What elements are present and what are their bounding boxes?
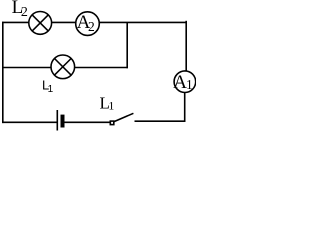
- wire: right vertical upper segment (top-right corner to ammeter A1): [185, 21, 187, 72]
- wire: top rail right segment (A2 to top-right corner): [99, 21, 187, 23]
- wire: middle rail left segment (left rail to lamp L1): [2, 67, 51, 69]
- battery positive plate (long thin): [56, 110, 58, 131]
- switch pivot square: [110, 121, 114, 125]
- wire: middle vertical (junction on top rail down to middle rail): [126, 22, 128, 68]
- wire: top rail between lamp L2 and ammeter A2: [52, 21, 76, 23]
- wire: bottom rail right segment (switch to bottom-right corner): [135, 120, 186, 122]
- wire: left vertical rail: [2, 22, 4, 123]
- ammeter A1: [174, 71, 196, 93]
- wire: bottom rail left segment (bottom-left corner to battery): [2, 121, 57, 123]
- svg-text:1: 1: [108, 99, 114, 113]
- svg-text:2: 2: [88, 19, 95, 34]
- wire: bottom rail middle segment (battery to switch): [64, 121, 110, 123]
- lamp L2: [29, 12, 52, 35]
- wire: top rail left segment (left rail to lamp L2): [2, 21, 29, 23]
- svg-text:2: 2: [21, 5, 28, 20]
- wire: middle rail right segment (lamp L1 to middle vertical): [75, 67, 128, 69]
- svg-text:1: 1: [186, 77, 193, 92]
- ammeter A2: [76, 12, 100, 36]
- wire: right vertical lower segment (A1 to bottom-right corner): [184, 92, 186, 122]
- battery negative plate (short thick): [61, 115, 65, 128]
- lamp L1: [51, 55, 75, 79]
- switch blade: [114, 113, 134, 122]
- svg-text:1: 1: [48, 84, 54, 95]
